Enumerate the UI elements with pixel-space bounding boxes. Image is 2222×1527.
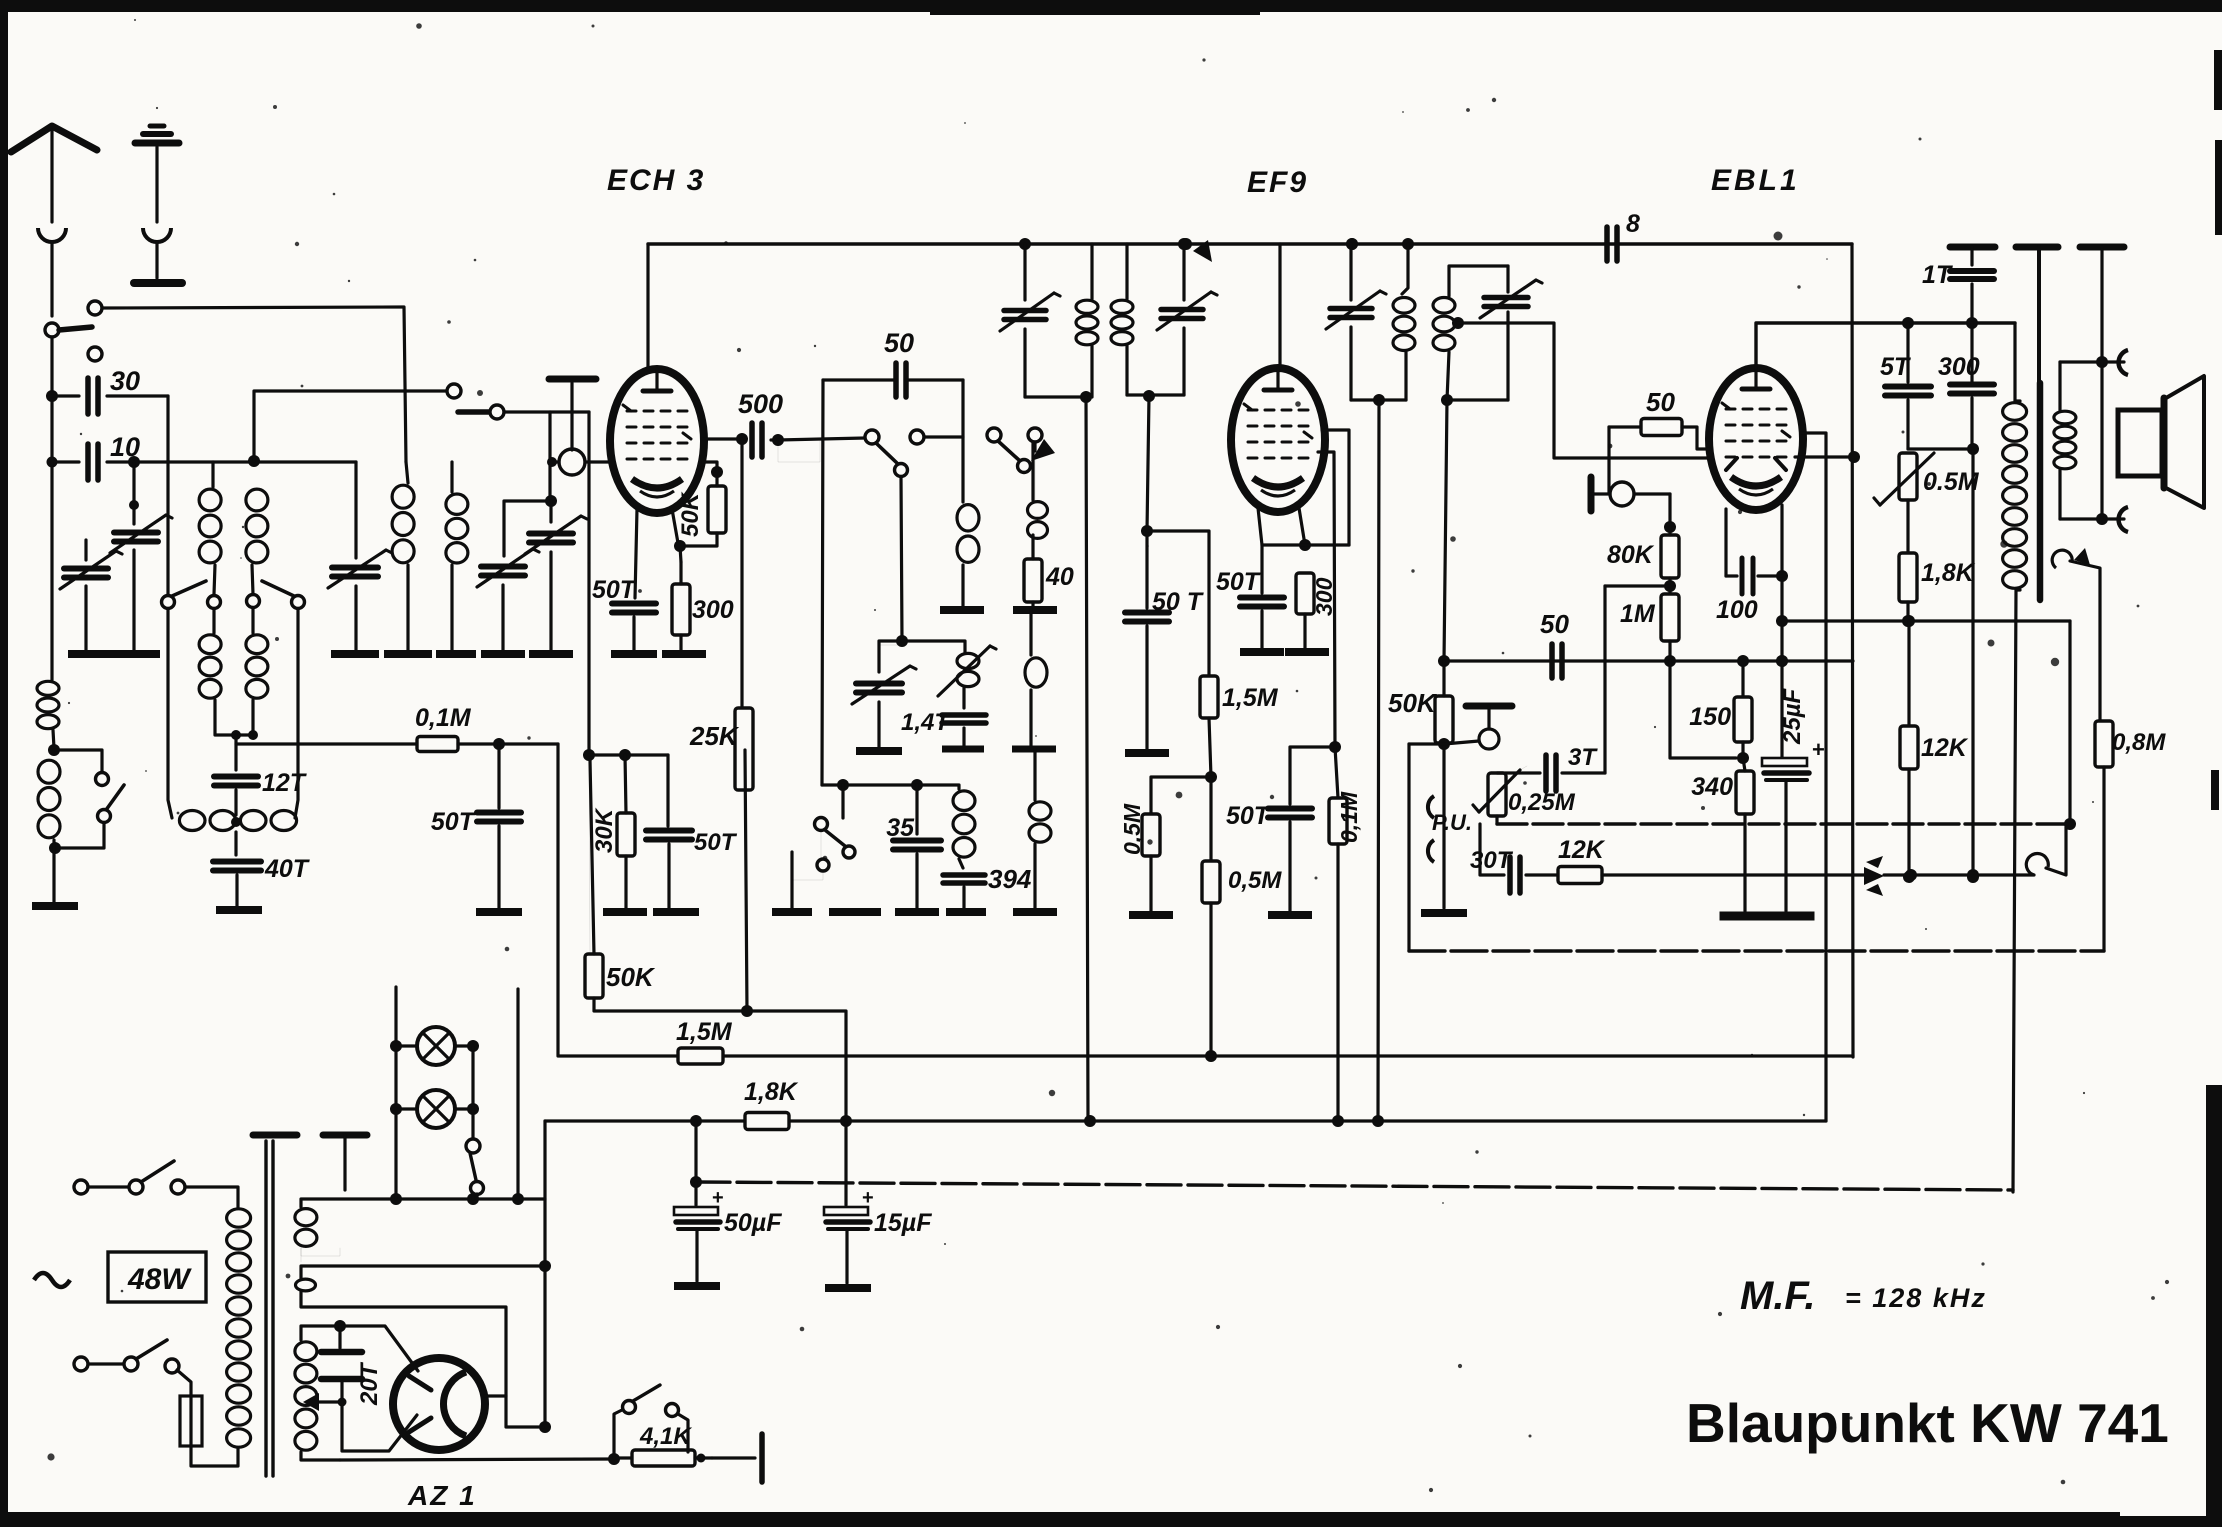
fuse — [180, 1396, 202, 1446]
svg-text:0.5M: 0.5M — [1923, 468, 1980, 496]
label 15uF — [874, 1209, 932, 1237]
svg-text:0,5M: 0,5M — [1119, 803, 1145, 855]
band switch blade B1 — [172, 581, 206, 596]
wire 50K AVC to bus — [594, 998, 846, 1121]
svg-text:1,5M: 1,5M — [676, 1018, 733, 1046]
ground EBL1 net — [1720, 912, 1815, 921]
symbol AC — [34, 1273, 70, 1287]
IFT2 bottom wire — [1351, 394, 1406, 406]
label 12K tone — [1558, 836, 1606, 864]
wire ECH3 anode to rail — [646, 244, 649, 369]
junction ECH3 cathode — [674, 540, 686, 552]
bus B+ — [545, 1115, 1826, 1127]
wire af row — [1497, 822, 2070, 825]
padder cap C5 — [852, 641, 916, 748]
ground C2 — [331, 650, 379, 658]
wire 300 to pot — [1908, 447, 1972, 450]
ground L3 — [940, 606, 984, 614]
resistor 300 ECH3 — [672, 562, 690, 651]
junction dot ant tuning — [128, 456, 140, 468]
wire Tbar2 drop — [2037, 247, 2041, 385]
EF9 screen wire — [1322, 430, 1349, 545]
svg-text:50T: 50T — [1226, 802, 1272, 830]
svg-text:50T: 50T — [1216, 568, 1262, 596]
tube AZ1 — [393, 1358, 485, 1450]
wire B1 down — [168, 609, 172, 818]
svg-text:40T: 40T — [264, 855, 311, 883]
resistor 1M — [1661, 594, 1679, 667]
svg-text:12T: 12T — [262, 769, 308, 797]
svg-text:150: 150 — [1689, 703, 1731, 731]
IFT1 secondary bottom wire — [1127, 390, 1184, 402]
svg-text:5T: 5T — [1880, 353, 1912, 381]
label EF9 — [1247, 166, 1308, 199]
capacitor 10 — [47, 444, 357, 480]
ground ECH3 cathode — [611, 650, 706, 658]
wire EBL1 cathode pins — [1726, 505, 1788, 758]
svg-text:AZ 1: AZ 1 — [407, 1480, 477, 1511]
svg-text:0,8M: 0,8M — [2112, 729, 2166, 756]
wire T1 left to contact — [214, 565, 215, 594]
resistor 50K osc — [703, 462, 726, 533]
elco 25uF — [1762, 737, 1825, 911]
capacitor 50T ECH3 — [612, 604, 656, 652]
svg-text:= 128 kHz: = 128 kHz — [1845, 1283, 1987, 1313]
svg-text:1,4T: 1,4T — [901, 709, 951, 736]
capacitor 35 — [893, 841, 941, 909]
osc contact S1 — [865, 430, 879, 444]
svg-text:M.F.: M.F. — [1740, 1274, 1816, 1318]
wire osc mid — [901, 477, 902, 641]
border frame top — [0, 0, 2222, 15]
junction g2 wire — [583, 749, 595, 761]
T-bar feedback — [2016, 244, 2058, 251]
wire 50K AVC vert — [589, 755, 590, 954]
resistor 12K anode — [1900, 621, 1918, 883]
svg-text:0,25M: 0,25M — [1508, 789, 1576, 816]
ground 30K — [603, 908, 647, 916]
resistor 0,1M AVC — [1329, 747, 1347, 1121]
capacitor 394 — [943, 859, 985, 908]
EBL1 top cap bar — [1588, 477, 1595, 511]
resistor 4,1K — [614, 1450, 712, 1466]
svg-text:300: 300 — [692, 596, 734, 624]
label 0,8M — [2112, 729, 2166, 756]
wire B4 down — [295, 609, 298, 818]
ground antenna bottom — [32, 902, 78, 910]
label AZ1 — [407, 1480, 477, 1511]
svg-text:48W: 48W — [127, 1263, 192, 1296]
svg-text:P.U.: P.U. — [1432, 810, 1472, 835]
wave switch upper contact — [54, 750, 109, 786]
dial lamp 1 — [390, 1027, 479, 1065]
wire EBL1 anode — [1756, 323, 2015, 368]
label 10 — [110, 432, 140, 462]
svg-text:1T: 1T — [1922, 261, 1954, 289]
ground 0,5M a — [1129, 911, 1173, 919]
svg-text:340: 340 — [1691, 773, 1733, 801]
wire trim link — [504, 501, 551, 556]
label 50 grid — [1646, 387, 1675, 417]
EBL1 beam arrows — [1726, 458, 1786, 470]
svg-text:100: 100 — [1716, 596, 1758, 624]
dial lamp 2 — [390, 1090, 479, 1128]
svg-text:50T: 50T — [694, 829, 738, 856]
label 50T EF9 — [1216, 568, 1262, 596]
resistor 50K volume — [1435, 661, 1453, 750]
tuning capacitor C1a — [110, 515, 172, 553]
bias switch — [614, 1385, 688, 1458]
label 50K AVC — [606, 962, 656, 992]
wire T1 left top — [211, 462, 214, 487]
svg-text:50T: 50T — [431, 808, 477, 836]
elco 15uF — [824, 1121, 874, 1283]
trimmer C3b — [525, 501, 587, 651]
shield T-bar 2 — [323, 1135, 367, 1190]
band switch contact B3 — [247, 595, 260, 608]
wire S2 right — [924, 435, 963, 438]
resistor 1,5M bus — [678, 1048, 723, 1064]
wire pot top to 3T — [1497, 771, 1540, 774]
border frame left — [0, 0, 8, 1527]
wire EBL1 grid stopper node — [1609, 427, 1711, 493]
tone arrow — [1864, 856, 1884, 896]
mains switch 1 — [74, 1161, 185, 1194]
heater drop wire — [512, 989, 524, 1205]
ground EF9 cath — [1240, 648, 1329, 656]
label 150 — [1689, 703, 1731, 731]
label 1,8K bus — [744, 1078, 799, 1106]
wire S4 down — [1034, 451, 1036, 502]
svg-text:50µF: 50µF — [724, 1209, 782, 1237]
wire 0,5M branch — [1151, 777, 1211, 814]
svg-text:40: 40 — [1045, 563, 1074, 591]
transformer core — [266, 1141, 273, 1476]
wire 40T to ground — [235, 875, 238, 906]
resistor 0,5M b — [1202, 777, 1220, 1056]
wire AVC row 2 — [458, 738, 558, 750]
capacitor 50T AVC — [477, 744, 521, 908]
IFT1 primary coil — [1076, 244, 1098, 397]
capacitor 30 — [46, 378, 168, 414]
label 50 top — [884, 328, 914, 358]
wire antenna down — [50, 337, 53, 396]
svg-text:25K: 25K — [689, 721, 740, 751]
capacitor 50T EF9 — [1240, 545, 1284, 648]
wire sw1 to primary — [185, 1187, 238, 1207]
label EBL1 — [1711, 164, 1800, 197]
wire tuning cap 1 stem — [129, 462, 139, 524]
svg-text:394: 394 — [988, 864, 1032, 894]
earth terminal — [135, 126, 179, 278]
svg-text:80K: 80K — [1607, 541, 1655, 569]
grid blade — [458, 409, 489, 415]
label 30 — [110, 366, 140, 396]
label 0,1M — [415, 704, 472, 732]
ground T1 — [216, 906, 262, 914]
contact G1 — [447, 384, 461, 398]
wire T2 left stem down — [406, 565, 409, 651]
IFT1 variable cap — [1000, 293, 1060, 397]
svg-text:30K: 30K — [591, 807, 618, 853]
wire y462 junction to T2 — [355, 461, 357, 463]
wire grid leak right — [1147, 531, 1209, 676]
potentiometer 0,25M — [1473, 766, 1527, 816]
IFT1 secondary tuning cap — [1157, 238, 1217, 395]
tube ECH3 — [610, 369, 704, 513]
wire T1 sec join — [215, 700, 258, 740]
svg-text:+: + — [1812, 737, 1825, 762]
wire fuse to primary — [191, 1446, 238, 1466]
band switch contact B1 — [162, 596, 175, 609]
label 300 ECH3 — [692, 596, 734, 624]
junction osc mid — [896, 635, 908, 647]
resistor 40 — [1024, 535, 1042, 606]
wire 300cap down — [1967, 449, 1979, 883]
junction T1 right top — [248, 455, 260, 467]
IFT1 junction rail — [1019, 238, 1031, 250]
wire L2 to ground — [52, 840, 55, 902]
label 1T — [1922, 261, 1954, 289]
capacitor 50T det — [1268, 809, 1312, 912]
wave switch blade — [106, 785, 124, 810]
svg-text:+: + — [862, 1187, 874, 1209]
band switch blade B4 — [262, 581, 294, 596]
wire bus B+ right leg — [1801, 433, 1826, 1121]
wire C1b stem — [84, 540, 87, 651]
wire T2 right stem down — [450, 565, 453, 651]
capacitor 40T — [213, 832, 261, 871]
label 50uF — [724, 1209, 782, 1237]
capacitor 50T g2 — [646, 755, 692, 908]
svg-text:3T: 3T — [1568, 744, 1598, 771]
label MF — [1740, 1274, 1987, 1318]
label 1,5M — [1222, 684, 1279, 712]
resistor 0,8M — [2095, 721, 2113, 951]
ground L6 — [1012, 746, 1056, 753]
winding 5V — [296, 1266, 544, 1427]
IFT2 secondary bottom — [1441, 394, 1508, 406]
wire spk bottom — [2060, 362, 2124, 525]
svg-text:0,1M: 0,1M — [415, 704, 472, 732]
mains switch 2 — [74, 1340, 179, 1373]
band switch contact B4 — [292, 596, 305, 609]
resistor 80K — [1661, 527, 1679, 594]
wire 25K down — [745, 750, 747, 1011]
label 3T — [1568, 744, 1598, 771]
junction 0,5M bus — [1205, 1050, 1217, 1062]
label 50T EF9 grid — [1152, 588, 1205, 616]
wire cath to loop — [2064, 621, 2076, 830]
trimmer C3a — [477, 549, 539, 651]
svg-text:50: 50 — [884, 328, 914, 358]
capacitor 20T — [321, 1326, 362, 1402]
wire EF9 pins down — [1258, 508, 1305, 545]
heater winding bottom — [301, 1452, 340, 1460]
osc contact S2 — [910, 430, 924, 444]
wire low band — [822, 785, 959, 834]
loading coil L2 — [38, 760, 60, 838]
label 50 af — [1540, 609, 1569, 639]
heater tap arrow — [303, 1393, 347, 1411]
T1 secondary right coil — [246, 635, 268, 698]
capacitor 500 — [703, 423, 784, 457]
padder coil row — [179, 790, 296, 831]
svg-text:50K: 50K — [1388, 688, 1438, 718]
osc tuning arrow — [1028, 428, 1055, 461]
osc blade S3 — [998, 441, 1020, 461]
EF9 cathode row — [1262, 543, 1349, 546]
label 0,5M a — [1119, 803, 1145, 855]
wire volume gnd — [1442, 744, 1445, 908]
svg-text:4,1K: 4,1K — [639, 1423, 692, 1450]
lamp wire left — [390, 987, 402, 1205]
wire EBL1 diode out — [1795, 451, 1860, 463]
top rail right corner — [1852, 244, 1853, 1057]
resistor 1,8K — [1899, 500, 1917, 627]
svg-text:50 T: 50 T — [1152, 588, 1205, 616]
wire tap to AZ1 — [342, 1402, 417, 1451]
wire B2 down — [212, 609, 215, 633]
junction loading tap — [48, 744, 60, 756]
wire AVC row — [236, 742, 417, 745]
osc blade S1 — [876, 443, 898, 464]
IFT2 variable cap — [1326, 244, 1386, 400]
svg-text:12K: 12K — [1921, 734, 1969, 762]
svg-text:8: 8 — [1626, 210, 1640, 238]
svg-text:12K: 12K — [1558, 836, 1606, 864]
junction low band — [837, 779, 923, 791]
svg-text:50: 50 — [1540, 609, 1569, 639]
wire 50 left drop — [822, 380, 823, 785]
wire volume feed — [1438, 400, 1450, 667]
ground 50T EF9 grid — [1125, 749, 1169, 757]
T1 secondary left coil — [199, 635, 221, 698]
osc contact S3b — [1018, 460, 1031, 473]
label 50T AVC — [431, 808, 477, 836]
svg-text:50K: 50K — [606, 962, 656, 992]
resistor 300 EF9 — [1296, 573, 1314, 648]
label 40 — [1045, 563, 1074, 591]
IFT1 secondary coil — [1111, 244, 1133, 395]
wire ECH3 pins — [635, 509, 678, 598]
PU connector arcs — [1428, 796, 1434, 862]
wire lowsw — [820, 830, 822, 860]
ground C3b — [529, 650, 573, 658]
wire osc padders — [880, 644, 902, 646]
ground 50T det — [1268, 911, 1312, 919]
IFT2 tuning cap 2 — [1480, 266, 1542, 400]
wire bus661 — [1444, 655, 1853, 667]
ground C3a — [481, 650, 525, 658]
label 50K volume — [1388, 688, 1438, 718]
IFT2 junction rail left — [1346, 238, 1358, 250]
label 50K osc — [677, 491, 704, 537]
IFT2 B+ drop — [1378, 400, 1379, 1122]
svg-text:EBL1: EBL1 — [1711, 164, 1800, 197]
label 300 EF9 — [1311, 577, 1337, 616]
resistor 50 grid — [1609, 419, 1710, 450]
resistor 0,1M — [417, 737, 458, 752]
capacitor 8 — [1520, 210, 1852, 261]
wire cap30 to band switch — [166, 396, 169, 597]
border frame right — [2206, 50, 2222, 1527]
antenna — [11, 126, 97, 316]
junction rail EF9 — [1346, 238, 1358, 250]
label 50T ECH3 — [592, 576, 638, 604]
label 50T g2 — [694, 829, 738, 856]
wire 50 right drop — [961, 380, 964, 502]
wire cathode row — [1782, 615, 2070, 627]
svg-text:50T: 50T — [592, 576, 638, 604]
wire AVC det — [1290, 747, 1335, 804]
label 35 — [886, 814, 915, 842]
capacitor 12T — [214, 735, 258, 786]
resistor 50K AVC — [585, 760, 603, 998]
svg-text:50: 50 — [1646, 387, 1675, 417]
shield T-bar 1 — [253, 1132, 297, 1139]
junction spk top — [2096, 356, 2108, 368]
ground input — [68, 650, 160, 658]
grid2 vertical — [587, 412, 590, 755]
IFT1 bottom wire — [1025, 391, 1092, 403]
grid cap connector — [547, 449, 612, 475]
resistor 12K tone — [1558, 867, 1868, 884]
wire OPT primary — [2003, 401, 2027, 1192]
chassis bar PU — [1466, 706, 1512, 729]
capacitor 50 af — [1552, 644, 1562, 678]
wire grid leak — [1664, 494, 1676, 533]
tube EBL1 — [1709, 368, 1803, 510]
tuning arrow EF9 — [1180, 238, 1212, 262]
ground 50T g2 — [653, 908, 699, 916]
T2 left coil — [392, 462, 414, 563]
svg-text:20T: 20T — [356, 1361, 383, 1406]
ground 1,4T — [942, 746, 984, 753]
wire cathode node — [680, 546, 681, 562]
chassis bar under earth — [134, 279, 182, 287]
ground C5 — [856, 747, 902, 755]
svg-text:25µF: 25µF — [1779, 687, 1806, 745]
svg-text:300: 300 — [1311, 577, 1337, 616]
wire ant node — [50, 396, 53, 462]
label 300 EBL1 — [1938, 353, 1980, 381]
OPT secondary — [2054, 362, 2076, 519]
contact A1 — [88, 301, 102, 315]
IFT2 junction rail right — [1402, 238, 1414, 250]
chassis terminal — [712, 1434, 762, 1482]
T1 primary left coil — [199, 489, 221, 563]
label 1M — [1620, 600, 1656, 628]
label 30K — [591, 807, 618, 853]
wire AZ1 cathode out — [485, 1394, 506, 1397]
label 1,8K — [1921, 559, 1976, 587]
feedback loop arrow — [2052, 548, 2100, 721]
capacitor 50 top — [823, 363, 963, 397]
svg-text:0,1M: 0,1M — [1336, 791, 1362, 843]
label 25uF — [1779, 687, 1806, 745]
osc contact S1b — [895, 464, 908, 477]
label 50T det — [1226, 802, 1272, 830]
svg-text:500: 500 — [738, 389, 783, 419]
detector tap — [1452, 317, 1609, 458]
tuning capacitor C1b — [60, 551, 122, 589]
osc coil L6 — [1025, 609, 1047, 746]
IFT1 left vertical — [1023, 244, 1026, 300]
wire EF9 top stem — [1278, 244, 1281, 368]
label 80K — [1607, 541, 1655, 569]
capacitor 1,4T — [942, 688, 986, 746]
